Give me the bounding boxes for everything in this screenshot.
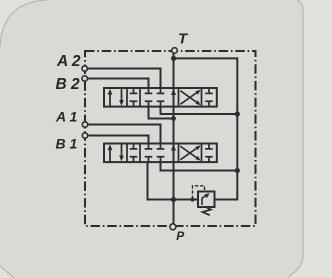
junction node pilot tap (190, 197, 194, 201)
wire: valve 1 tank return (161, 162, 238, 171)
wire: port A2 to valve 2 (87, 69, 161, 89)
wire: valve 2 carry-over down to P line (149, 106, 174, 119)
junction node tank line upper (235, 111, 240, 116)
svg-text:B 2: B 2 (56, 76, 81, 93)
wire: T branch to right side tank line (174, 58, 238, 199)
directional valve 1 (lower, spool A1/B1) (104, 144, 217, 163)
port B1 circle (82, 133, 87, 138)
pressure relief valve body (198, 192, 215, 208)
page edge right (decorative) (288, 0, 303, 277)
wire: port A1 to valve 1 (87, 125, 161, 144)
junction node at T (171, 56, 176, 61)
relief valve spring (203, 207, 211, 215)
wire: pressure line P vertical (173, 53, 175, 224)
svg-text:A 2: A 2 (56, 53, 81, 70)
page corner bottom-left (decorative) (0, 266, 14, 278)
junction node P line below valve 2 (171, 116, 176, 121)
junction node tank line lower (235, 168, 240, 173)
port B2 circle (82, 76, 87, 81)
junction node P to relief valve (171, 197, 176, 202)
svg-text:B 1: B 1 (56, 136, 78, 152)
wire: port B2 to valve 2 (87, 79, 149, 89)
port A1 circle (82, 122, 87, 127)
directional valve 2 (upper, spool A2/B2) (104, 88, 217, 107)
wire: valve 2 tank return (161, 106, 238, 114)
wire: valve 1 feed down to relief line (148, 162, 199, 200)
relief valve internal arrow (202, 196, 206, 205)
enclosure boundary (valve block, dash-dot) (85, 51, 256, 226)
page corner arc top-left (decorative) (0, 0, 47, 47)
svg-text:A 1: A 1 (55, 109, 77, 125)
port A2 circle (82, 66, 87, 71)
port P circle (170, 224, 176, 230)
relief valve pilot line (dashed) (193, 186, 205, 199)
wire: port B1 to valve 1 (87, 136, 149, 144)
port T circle (172, 48, 178, 54)
svg-text:P: P (176, 229, 185, 243)
